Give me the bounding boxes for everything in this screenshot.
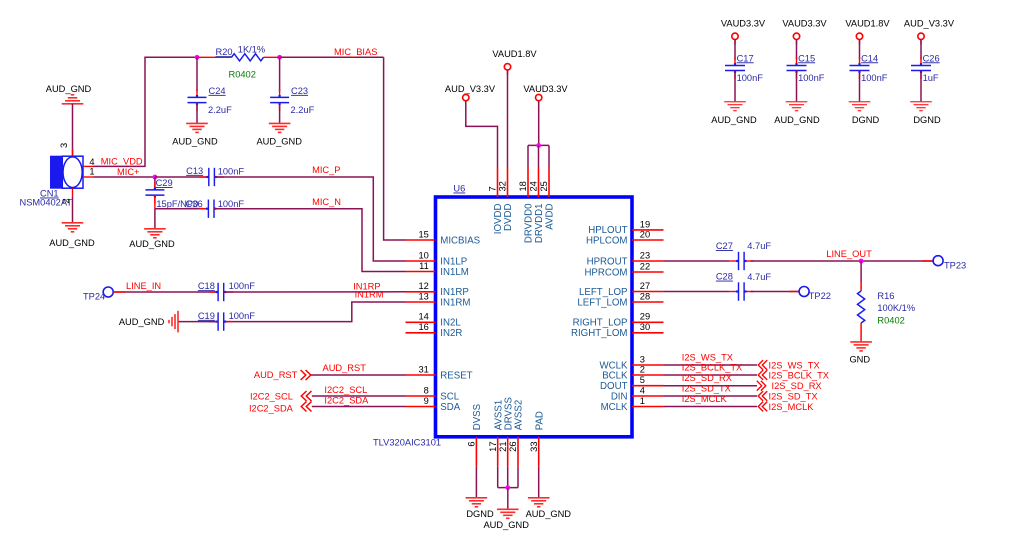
svg-text:25: 25 [539, 181, 549, 191]
svg-text:27: 27 [640, 281, 650, 291]
svg-text:100nF: 100nF [218, 199, 245, 209]
svg-text:R0402: R0402 [229, 69, 256, 79]
svg-text:AUD_GND: AUD_GND [711, 115, 757, 125]
svg-text:1uF: 1uF [923, 73, 939, 83]
svg-text:I2C2_SDA: I2C2_SDA [324, 396, 369, 406]
svg-text:32: 32 [498, 181, 508, 191]
svg-text:AUD_GND: AUD_GND [46, 84, 92, 94]
svg-text:5: 5 [640, 375, 645, 385]
svg-text:DGND: DGND [852, 115, 880, 125]
svg-text:I2S_SD_RX: I2S_SD_RX [682, 373, 732, 383]
svg-text:HPRCOM: HPRCOM [584, 267, 627, 278]
svg-text:11: 11 [419, 261, 429, 271]
svg-text:VAUD1.8V: VAUD1.8V [492, 49, 537, 59]
svg-text:HPLCOM: HPLCOM [586, 235, 627, 246]
svg-text:R0402: R0402 [877, 316, 904, 326]
svg-text:AUD_GND: AUD_GND [119, 317, 165, 327]
svg-text:LEFT_LOM: LEFT_LOM [577, 297, 627, 308]
svg-text:AUD_GND: AUD_GND [49, 238, 95, 248]
svg-text:MIC_BIAS: MIC_BIAS [334, 47, 377, 57]
svg-text:DIN: DIN [611, 391, 628, 402]
svg-text:MCLK: MCLK [601, 402, 628, 413]
svg-text:100nF: 100nF [861, 73, 888, 83]
svg-text:DRVDD0: DRVDD0 [524, 203, 535, 243]
svg-text:20: 20 [640, 229, 650, 239]
svg-text:I2S_WS_TX: I2S_WS_TX [769, 360, 820, 370]
svg-text:VAUD3.3V: VAUD3.3V [721, 19, 766, 29]
svg-text:I2C2_SDA: I2C2_SDA [249, 404, 294, 414]
svg-text:33: 33 [529, 442, 539, 452]
svg-text:10: 10 [418, 250, 428, 260]
svg-text:I2S_MCLK: I2S_MCLK [769, 402, 815, 412]
svg-text:2: 2 [61, 198, 71, 203]
svg-text:R20: R20 [216, 47, 233, 57]
svg-text:16: 16 [418, 322, 428, 332]
svg-text:C24: C24 [209, 86, 226, 96]
svg-text:C27: C27 [716, 241, 733, 251]
svg-text:100nF: 100nF [737, 73, 764, 83]
svg-text:AUD_GND: AUD_GND [129, 239, 175, 249]
svg-text:1: 1 [640, 396, 645, 406]
svg-text:I2C2_SCL: I2C2_SCL [324, 385, 367, 395]
svg-text:DVDD: DVDD [503, 203, 514, 230]
svg-text:TP22: TP22 [809, 291, 831, 301]
svg-text:AUD_GND: AUD_GND [483, 520, 529, 530]
svg-text:9: 9 [424, 396, 429, 406]
svg-text:2: 2 [640, 364, 645, 374]
svg-text:AUD_GND: AUD_GND [526, 509, 572, 519]
svg-text:MICBIAS: MICBIAS [440, 235, 480, 246]
svg-text:28: 28 [640, 291, 650, 301]
svg-text:DGND: DGND [466, 509, 494, 519]
svg-text:HPROUT: HPROUT [587, 256, 628, 267]
svg-text:I2S_MCLK: I2S_MCLK [682, 394, 728, 404]
svg-text:LINE_IN: LINE_IN [126, 281, 161, 291]
svg-text:I2S_WS_TX: I2S_WS_TX [682, 352, 733, 362]
svg-text:4.7uF: 4.7uF [747, 241, 771, 251]
svg-text:I2S_SD_TX: I2S_SD_TX [769, 391, 818, 401]
svg-text:C15: C15 [798, 53, 815, 63]
svg-text:DRVDD1: DRVDD1 [534, 204, 545, 244]
svg-text:RIGHT_LOM: RIGHT_LOM [571, 328, 628, 339]
svg-text:C29: C29 [156, 178, 173, 188]
svg-text:15: 15 [418, 229, 428, 239]
svg-text:MIC+: MIC+ [117, 167, 139, 177]
svg-text:AUD_GND: AUD_GND [774, 115, 820, 125]
svg-text:PAD: PAD [534, 411, 545, 430]
svg-text:C23: C23 [291, 86, 308, 96]
svg-text:6: 6 [467, 442, 477, 447]
svg-text:100nF: 100nF [229, 281, 256, 291]
svg-text:AUD_V3.3V: AUD_V3.3V [445, 84, 496, 94]
svg-text:1K/1%: 1K/1% [238, 44, 265, 54]
svg-text:VAUD3.3V: VAUD3.3V [782, 19, 827, 29]
svg-text:C14: C14 [861, 53, 878, 63]
svg-text:RESET: RESET [440, 370, 472, 381]
svg-text:I2S_SD_RX: I2S_SD_RX [772, 381, 822, 391]
svg-text:4.7uF: 4.7uF [747, 272, 771, 282]
svg-text:TP23: TP23 [944, 261, 966, 271]
svg-text:C18: C18 [198, 281, 215, 291]
svg-text:3: 3 [59, 143, 69, 148]
svg-text:SCL: SCL [440, 391, 459, 402]
svg-text:4: 4 [89, 157, 94, 167]
svg-text:14: 14 [418, 312, 428, 322]
svg-text:LINE_OUT: LINE_OUT [826, 249, 872, 259]
svg-text:U6: U6 [453, 184, 465, 194]
svg-text:18: 18 [518, 181, 528, 191]
svg-text:C17: C17 [737, 53, 754, 63]
svg-text:19: 19 [640, 219, 650, 229]
svg-text:VAUD1.8V: VAUD1.8V [845, 19, 890, 29]
svg-text:12: 12 [418, 281, 428, 291]
svg-text:SDA: SDA [440, 402, 460, 413]
svg-text:IN1LP: IN1LP [440, 256, 467, 267]
svg-text:C26: C26 [923, 53, 940, 63]
svg-text:C36: C36 [186, 199, 203, 209]
svg-text:AUD_RST: AUD_RST [254, 370, 298, 380]
svg-text:MIC_P: MIC_P [312, 165, 340, 175]
svg-text:IN2R: IN2R [440, 328, 462, 339]
svg-text:MIC_VDD: MIC_VDD [101, 156, 143, 166]
svg-text:AVDD: AVDD [545, 204, 556, 230]
svg-text:24: 24 [529, 181, 539, 191]
svg-text:IN2L: IN2L [440, 318, 461, 329]
svg-text:I2C2_SCL: I2C2_SCL [250, 392, 293, 402]
svg-text:4: 4 [640, 385, 645, 395]
svg-text:AUD_GND: AUD_GND [256, 137, 302, 147]
svg-text:29: 29 [640, 312, 650, 322]
svg-text:31: 31 [418, 364, 428, 374]
svg-text:2.2uF: 2.2uF [208, 105, 232, 115]
svg-text:AUD_V3.3V: AUD_V3.3V [904, 19, 955, 29]
svg-text:C13: C13 [186, 166, 203, 176]
svg-text:MIC_N: MIC_N [312, 197, 341, 207]
svg-text:100nF: 100nF [218, 166, 245, 176]
svg-text:GND: GND [849, 355, 870, 365]
svg-text:IN1RM: IN1RM [355, 290, 384, 300]
svg-text:IN1RM: IN1RM [440, 297, 470, 308]
svg-text:TLV320AIC3101: TLV320AIC3101 [373, 438, 441, 448]
svg-text:DGND: DGND [913, 115, 941, 125]
svg-text:7: 7 [488, 186, 498, 191]
svg-text:AUD_RST: AUD_RST [323, 363, 367, 373]
svg-text:22: 22 [640, 261, 650, 271]
svg-text:I2S_BCLK_TX: I2S_BCLK_TX [682, 362, 742, 372]
svg-text:13: 13 [418, 291, 428, 301]
svg-text:IN1LM: IN1LM [440, 267, 469, 278]
svg-text:100nF: 100nF [229, 311, 256, 321]
svg-text:3: 3 [640, 354, 645, 364]
svg-text:VAUD3.3V: VAUD3.3V [523, 84, 568, 94]
svg-text:RIGHT_LOP: RIGHT_LOP [573, 318, 628, 329]
svg-text:8: 8 [424, 385, 429, 395]
svg-text:26: 26 [508, 442, 518, 452]
svg-text:100K/1%: 100K/1% [877, 303, 915, 313]
svg-text:DVSS: DVSS [472, 403, 483, 430]
svg-text:C28: C28 [716, 272, 733, 282]
svg-text:1: 1 [89, 167, 94, 177]
svg-text:AVSS2: AVSS2 [514, 400, 525, 431]
svg-text:100nF: 100nF [798, 73, 825, 83]
svg-text:2.2uF: 2.2uF [291, 105, 315, 115]
svg-text:17: 17 [488, 442, 498, 452]
svg-text:23: 23 [640, 250, 650, 260]
svg-text:I2S_SD_TX: I2S_SD_TX [682, 383, 731, 393]
svg-text:TP24: TP24 [83, 292, 105, 302]
svg-text:30: 30 [640, 322, 650, 332]
svg-text:AUD_GND: AUD_GND [172, 137, 218, 147]
svg-text:21: 21 [498, 442, 508, 452]
svg-text:C19: C19 [198, 311, 215, 321]
svg-text:BCLK: BCLK [602, 370, 628, 381]
svg-text:LEFT_LOP: LEFT_LOP [579, 287, 627, 298]
svg-text:R16: R16 [877, 291, 894, 301]
svg-text:I2S_BCLK_TX: I2S_BCLK_TX [769, 370, 829, 380]
